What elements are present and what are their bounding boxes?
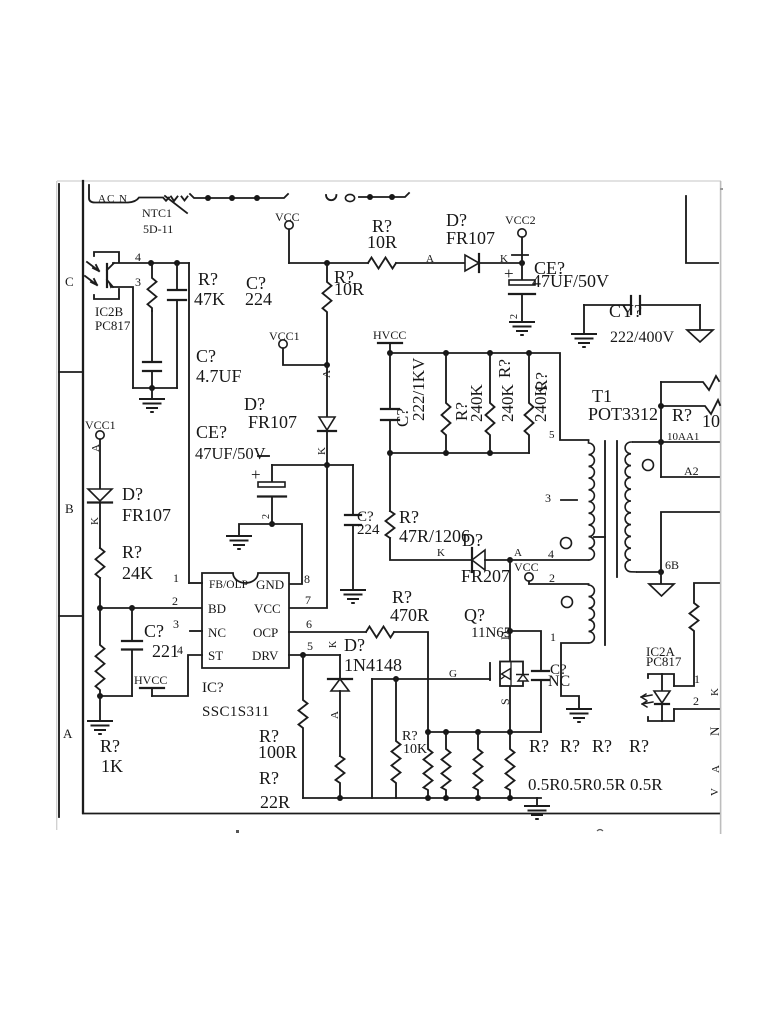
sheet left outer border bbox=[58, 184, 60, 817]
svg-text:PC817: PC817 bbox=[95, 318, 131, 333]
collector wire to FB node bbox=[113, 262, 189, 264]
svg-text:1K: 1K bbox=[101, 756, 123, 776]
svg-text:3: 3 bbox=[173, 617, 179, 631]
resistor R? 24K bbox=[96, 548, 105, 578]
svg-text:47UF/50V: 47UF/50V bbox=[195, 444, 266, 463]
svg-text:222/1KV: 222/1KV bbox=[409, 357, 428, 421]
svg-text:10AA1: 10AA1 bbox=[667, 431, 699, 443]
junction bbox=[300, 652, 306, 658]
pin 2 wire bbox=[674, 708, 719, 710]
svg-text:FR107: FR107 bbox=[446, 228, 495, 248]
junction bbox=[658, 569, 664, 575]
svg-text:5: 5 bbox=[307, 639, 313, 653]
CURRENT SENSE RESISTORS bbox=[424, 729, 664, 819]
svg-text:FR107: FR107 bbox=[122, 505, 171, 525]
10AA1 wire bbox=[633, 441, 719, 443]
svg-text:222/400V: 222/400V bbox=[610, 329, 674, 346]
FB line from IC2B bbox=[188, 263, 190, 583]
junction bbox=[425, 795, 431, 801]
wire to sense rail bbox=[394, 632, 428, 732]
capacitor C? 4.7UF bbox=[143, 361, 161, 363]
svg-text:1: 1 bbox=[694, 672, 700, 686]
gate tie wire bbox=[371, 679, 373, 798]
K node wire bbox=[272, 464, 353, 466]
svg-text:240K: 240K bbox=[498, 384, 517, 423]
HVCC SNUBBER BANK bbox=[373, 328, 589, 586]
svg-text:OCP: OCP bbox=[253, 625, 278, 640]
svg-text:C: C bbox=[65, 274, 74, 289]
resistor R? 240K (2) bbox=[486, 353, 495, 453]
svg-text:R?: R? bbox=[629, 736, 649, 756]
IC2B box bbox=[94, 252, 119, 262]
svg-text:A: A bbox=[90, 444, 102, 452]
top rail bbox=[390, 353, 589, 440]
svg-text:R?: R? bbox=[198, 269, 218, 289]
svg-text:D?: D? bbox=[244, 394, 265, 414]
svg-text:NC: NC bbox=[548, 673, 570, 690]
snubber branch bbox=[510, 631, 541, 671]
right-side frame L-wire bbox=[686, 196, 718, 263]
svg-text:5D-11: 5D-11 bbox=[143, 222, 173, 236]
partial arc symbol bbox=[326, 195, 336, 200]
svg-text:5: 5 bbox=[549, 429, 555, 441]
junction bbox=[324, 260, 330, 266]
svg-text:1: 1 bbox=[173, 571, 179, 585]
IC2B phototransistor bbox=[106, 264, 108, 287]
junction bbox=[324, 462, 330, 468]
svg-text:D?: D? bbox=[122, 484, 143, 504]
wire to pin 8 bbox=[272, 524, 302, 584]
sense resistor 4 bbox=[506, 732, 515, 798]
sense resistor 1 bbox=[424, 732, 433, 798]
bottom rail left bbox=[303, 797, 541, 799]
primary winding bbox=[589, 440, 595, 560]
wire to K node bbox=[326, 431, 328, 465]
resistor R? 10K bbox=[392, 679, 401, 798]
ground node wire bbox=[100, 695, 132, 697]
capacitor C? 222/1KV bbox=[389, 353, 391, 409]
svg-text:R?: R? bbox=[672, 405, 692, 425]
svg-text:AC N: AC N bbox=[98, 193, 128, 205]
ground bbox=[99, 696, 101, 721]
svg-text:10R: 10R bbox=[367, 232, 397, 252]
svg-text:NTC1: NTC1 bbox=[142, 206, 172, 220]
svg-text:CE?: CE? bbox=[196, 422, 227, 442]
svg-text:B: B bbox=[65, 501, 74, 516]
junction bbox=[174, 260, 180, 266]
svg-text:PC817: PC817 bbox=[646, 654, 682, 669]
capacitor CE? 47UF/50V (left) bbox=[271, 465, 273, 482]
svg-text:100R: 100R bbox=[258, 742, 297, 762]
junction bbox=[387, 450, 393, 456]
junction bbox=[425, 729, 431, 735]
svg-text:240K: 240K bbox=[467, 384, 486, 423]
junction bbox=[475, 795, 481, 801]
LED arrows bbox=[641, 694, 652, 700]
capacitor (224) beside 47K bbox=[176, 263, 178, 290]
polarity dot secondary bbox=[643, 460, 654, 471]
junction bbox=[443, 450, 449, 456]
IC2A LED bbox=[661, 674, 663, 691]
source wire bbox=[509, 687, 511, 732]
aux winding bbox=[589, 584, 595, 643]
junction bbox=[337, 795, 343, 801]
pin 4 wire bbox=[510, 559, 589, 561]
svg-text:4: 4 bbox=[548, 547, 554, 561]
svg-text:IC?: IC? bbox=[202, 680, 224, 696]
svg-text:N: N bbox=[707, 726, 722, 736]
resistor R? 1K bbox=[96, 608, 105, 696]
diode D? FR107 bbox=[465, 255, 479, 271]
wire bbox=[99, 503, 101, 549]
6B wire bbox=[637, 571, 661, 573]
junction bbox=[205, 195, 211, 201]
svg-text:470R: 470R bbox=[390, 605, 429, 625]
top rail bbox=[428, 731, 541, 733]
output resistor partial (second) bbox=[661, 400, 720, 414]
bottom rail bbox=[133, 387, 177, 389]
polarity dot aux bbox=[562, 597, 573, 608]
capacitor C? 221 bbox=[131, 608, 133, 641]
gate bar bbox=[489, 663, 491, 680]
resistor to IC2A bbox=[674, 583, 719, 686]
svg-text:R?: R? bbox=[392, 587, 412, 607]
pin7 link bbox=[289, 465, 327, 608]
junction bbox=[507, 729, 513, 735]
svg-text:R?: R? bbox=[100, 736, 120, 756]
ground bbox=[536, 798, 538, 806]
junction bbox=[148, 260, 154, 266]
capacitor C? NC bbox=[532, 670, 549, 672]
diode D? 1N4148 bbox=[339, 655, 341, 679]
svg-text:6: 6 bbox=[306, 617, 312, 631]
svg-text:224: 224 bbox=[357, 522, 380, 538]
rail wire bbox=[289, 262, 368, 264]
wire to BD node bbox=[99, 578, 101, 608]
svg-text:VCC2: VCC2 bbox=[505, 213, 536, 227]
junction bbox=[97, 605, 103, 611]
junction bbox=[129, 605, 135, 611]
zone divider C/B bbox=[59, 371, 83, 373]
wire to A node bbox=[485, 559, 510, 561]
resistor R? 10R horizontal bbox=[368, 258, 396, 269]
B ZONE VCC1 CHAIN bbox=[85, 418, 202, 776]
sheet bottom border bbox=[83, 813, 719, 815]
ground bbox=[583, 305, 585, 334]
capacitor CE? 47UF/50V (top) bbox=[521, 263, 523, 280]
IC box bbox=[202, 573, 289, 668]
svg-text:2: 2 bbox=[693, 694, 699, 708]
svg-text:C?: C? bbox=[196, 346, 216, 366]
pin 6 wire bbox=[289, 631, 366, 633]
svg-text:HVCC: HVCC bbox=[373, 328, 406, 342]
pin 5 wire bbox=[289, 654, 340, 656]
BD wire bbox=[100, 607, 202, 609]
capacitor CY? 222/400V bbox=[584, 304, 631, 306]
border tick marks bbox=[236, 830, 239, 833]
sense resistor 3 bbox=[474, 732, 483, 798]
svg-text:R?: R? bbox=[529, 736, 549, 756]
svg-text:FR207: FR207 bbox=[461, 566, 510, 586]
svg-text:221: 221 bbox=[152, 641, 179, 661]
polarity dot primary bbox=[561, 538, 572, 549]
svg-text:GND: GND bbox=[256, 577, 284, 592]
junction bbox=[507, 557, 513, 563]
svg-text:0.5R0.5R0.5R 0.5R: 0.5R0.5R0.5R 0.5R bbox=[528, 775, 663, 794]
svg-text:T1: T1 bbox=[592, 386, 612, 406]
svg-text:K: K bbox=[709, 688, 721, 696]
svg-text:224: 224 bbox=[245, 289, 272, 309]
svg-text:10R: 10R bbox=[334, 279, 364, 299]
junction bbox=[487, 450, 493, 456]
light arrows bbox=[87, 262, 99, 271]
svg-text:10K: 10K bbox=[403, 742, 427, 757]
resistor R? 47K bbox=[148, 263, 157, 311]
ground bbox=[226, 536, 252, 549]
junction bbox=[367, 194, 373, 200]
svg-text:D?: D? bbox=[446, 210, 467, 230]
SHEET-FRAME bbox=[57, 181, 723, 834]
wire bbox=[326, 365, 328, 417]
svg-text:G: G bbox=[449, 668, 457, 680]
ground bbox=[509, 322, 535, 335]
ground bbox=[340, 590, 366, 603]
junction bbox=[487, 350, 493, 356]
resistor R? 240K (3) bbox=[525, 353, 534, 453]
svg-text:4.7UF: 4.7UF bbox=[196, 366, 242, 386]
wire bbox=[396, 262, 465, 264]
winding-core tap bbox=[594, 536, 605, 538]
TRANSFORMER T1 POT3312 bbox=[514, 386, 658, 722]
svg-text:6B: 6B bbox=[665, 558, 679, 572]
TOP PARTIAL ROW bbox=[89, 185, 718, 263]
junction bbox=[254, 195, 260, 201]
svg-text:24K: 24K bbox=[122, 563, 153, 583]
svg-text:2: 2 bbox=[549, 571, 555, 585]
svg-text:+: + bbox=[251, 465, 261, 484]
svg-text:VCC: VCC bbox=[514, 560, 539, 574]
pin 3 stub bbox=[190, 630, 202, 632]
junction bbox=[507, 795, 513, 801]
pin 3 stub bbox=[561, 499, 577, 501]
junction bbox=[658, 439, 664, 445]
capacitor C? 224 (K node) bbox=[352, 465, 354, 515]
svg-text:A2: A2 bbox=[684, 464, 699, 478]
junction bbox=[526, 350, 532, 356]
resistor R? 240K (1) bbox=[442, 353, 451, 453]
pin 4 stub bbox=[152, 655, 202, 696]
svg-text:ST: ST bbox=[208, 648, 223, 663]
svg-text:R?: R? bbox=[560, 736, 580, 756]
svg-text:4: 4 bbox=[177, 643, 183, 657]
resistor R? 470R bbox=[366, 627, 394, 638]
wire to FR207 bbox=[390, 538, 472, 560]
6B branch wire bbox=[661, 512, 719, 572]
junction bbox=[443, 729, 449, 735]
svg-text:R?: R? bbox=[495, 359, 514, 378]
drain wire bbox=[509, 560, 511, 662]
svg-text:A: A bbox=[426, 253, 434, 265]
junction bbox=[507, 628, 513, 634]
junction bbox=[387, 350, 393, 356]
core line 2 bbox=[616, 441, 618, 577]
svg-text:22R: 22R bbox=[260, 792, 290, 812]
junction bbox=[389, 194, 395, 200]
svg-text:2: 2 bbox=[509, 314, 520, 319]
wire segment with junctions bbox=[359, 193, 409, 197]
ground bbox=[151, 388, 153, 399]
svg-text:3: 3 bbox=[545, 491, 551, 505]
svg-text:7: 7 bbox=[305, 593, 311, 607]
svg-text:R?: R? bbox=[122, 542, 142, 562]
IC2B OPTOCOUPLER BLOCK bbox=[85, 250, 272, 412]
junction bbox=[393, 676, 399, 682]
junction bbox=[519, 260, 525, 266]
VCC RAIL ROW bbox=[275, 210, 713, 347]
svg-text:D: D bbox=[498, 631, 512, 640]
wire to cap bbox=[151, 311, 153, 362]
IC2A box bbox=[648, 674, 674, 686]
svg-text:POT3312: POT3312 bbox=[588, 404, 658, 424]
svg-text:FR107: FR107 bbox=[248, 412, 297, 432]
svg-text:8: 8 bbox=[304, 572, 310, 586]
svg-text:47K: 47K bbox=[194, 289, 225, 309]
pin 1 wire to ground bbox=[561, 643, 589, 709]
svg-text:NC: NC bbox=[208, 625, 226, 640]
svg-text:FB/OLP: FB/OLP bbox=[209, 579, 248, 591]
svg-text:VCC1: VCC1 bbox=[85, 418, 116, 432]
AC N net flag bbox=[89, 185, 169, 203]
scan edge shading bbox=[57, 180, 721, 182]
svg-text:VCC: VCC bbox=[254, 601, 281, 616]
svg-text:3: 3 bbox=[135, 275, 141, 289]
svg-text:IC2B: IC2B bbox=[95, 304, 124, 319]
junction bbox=[475, 729, 481, 735]
svg-text:BD: BD bbox=[208, 601, 226, 616]
vertical tie bbox=[660, 382, 662, 477]
resistor R? 47R/1206 bbox=[386, 511, 395, 538]
wire segment with junctions bbox=[190, 194, 288, 198]
svg-text:A: A bbox=[514, 547, 522, 559]
GATE DRIVE NETWORK bbox=[258, 587, 541, 812]
svg-text:47UF/50V: 47UF/50V bbox=[532, 271, 609, 291]
diode D? FR107 (to pin7 node) bbox=[319, 417, 335, 430]
core line 1 bbox=[604, 441, 606, 645]
svg-text:DRV: DRV bbox=[252, 648, 279, 663]
junction bbox=[443, 795, 449, 801]
diode D? FR207 bbox=[471, 548, 473, 572]
gate wire bbox=[372, 678, 490, 680]
junction bbox=[324, 362, 330, 368]
svg-text:HVCC: HVCC bbox=[134, 673, 167, 687]
resistor R? 10R vertical bbox=[323, 263, 332, 365]
MOSFET Q? 11N65 bbox=[500, 662, 523, 687]
svg-text:2: 2 bbox=[172, 594, 178, 608]
svg-text:D?: D? bbox=[462, 530, 483, 550]
svg-text:V: V bbox=[709, 788, 721, 796]
svg-text:240K: 240K bbox=[531, 384, 550, 423]
svg-text:1: 1 bbox=[550, 630, 556, 644]
resistor R? 100R bbox=[299, 655, 308, 798]
ground bbox=[566, 709, 592, 722]
svg-text:A: A bbox=[63, 726, 73, 741]
emitter wire bbox=[113, 287, 133, 388]
IC SSC1S311 bbox=[134, 263, 313, 720]
svg-text:10: 10 bbox=[702, 411, 720, 431]
chassis ground bbox=[699, 305, 701, 330]
svg-text:D?: D? bbox=[344, 635, 365, 655]
svg-text:R?: R? bbox=[592, 736, 612, 756]
output resistor partial (top) bbox=[661, 376, 719, 390]
svg-text:K: K bbox=[328, 640, 339, 648]
pin 1 stub bbox=[189, 582, 202, 584]
svg-text:1N4148: 1N4148 bbox=[344, 655, 402, 675]
svg-text:A: A bbox=[710, 765, 722, 773]
svg-text:C?: C? bbox=[144, 621, 164, 641]
wire bbox=[479, 262, 522, 264]
sense resistor 2 bbox=[442, 732, 451, 798]
svg-text:CY?: CY? bbox=[609, 301, 642, 321]
svg-text:Q?: Q? bbox=[464, 605, 485, 625]
svg-text:4: 4 bbox=[135, 250, 141, 264]
bottom rail bbox=[390, 452, 529, 454]
junction bbox=[269, 521, 275, 527]
SECONDARY SIDE bbox=[633, 376, 722, 796]
svg-text:A: A bbox=[329, 711, 341, 719]
svg-text:47R/1206: 47R/1206 bbox=[399, 526, 470, 546]
zone divider B/A bbox=[59, 615, 83, 617]
svg-text:R?: R? bbox=[399, 507, 419, 527]
junction bbox=[97, 693, 103, 699]
secondary winding bbox=[625, 442, 637, 572]
NTC1 thermistor (partial) bbox=[171, 197, 178, 202]
chassis ground bbox=[660, 572, 662, 584]
wire to ground bbox=[239, 524, 272, 536]
svg-text:2: 2 bbox=[261, 514, 272, 519]
resistor R? 22R bbox=[336, 756, 345, 798]
MIDDLE COLUMN (VCC1 to VCC pin7 chain) bbox=[195, 263, 380, 608]
svg-text:K: K bbox=[437, 547, 445, 559]
left column wire bbox=[389, 453, 391, 511]
svg-text:R?: R? bbox=[259, 768, 279, 788]
junction bbox=[229, 195, 235, 201]
sheet left inner border bbox=[82, 181, 84, 813]
A2 wire bbox=[661, 476, 719, 478]
diode D? FR107 bbox=[88, 489, 112, 501]
MOSFET STAGE bbox=[464, 560, 570, 732]
svg-text:SSC1S311: SSC1S311 bbox=[202, 704, 270, 720]
partial ellipse symbol bbox=[345, 194, 354, 201]
junction bbox=[443, 350, 449, 356]
junction bbox=[658, 403, 664, 409]
junction bbox=[149, 385, 155, 391]
